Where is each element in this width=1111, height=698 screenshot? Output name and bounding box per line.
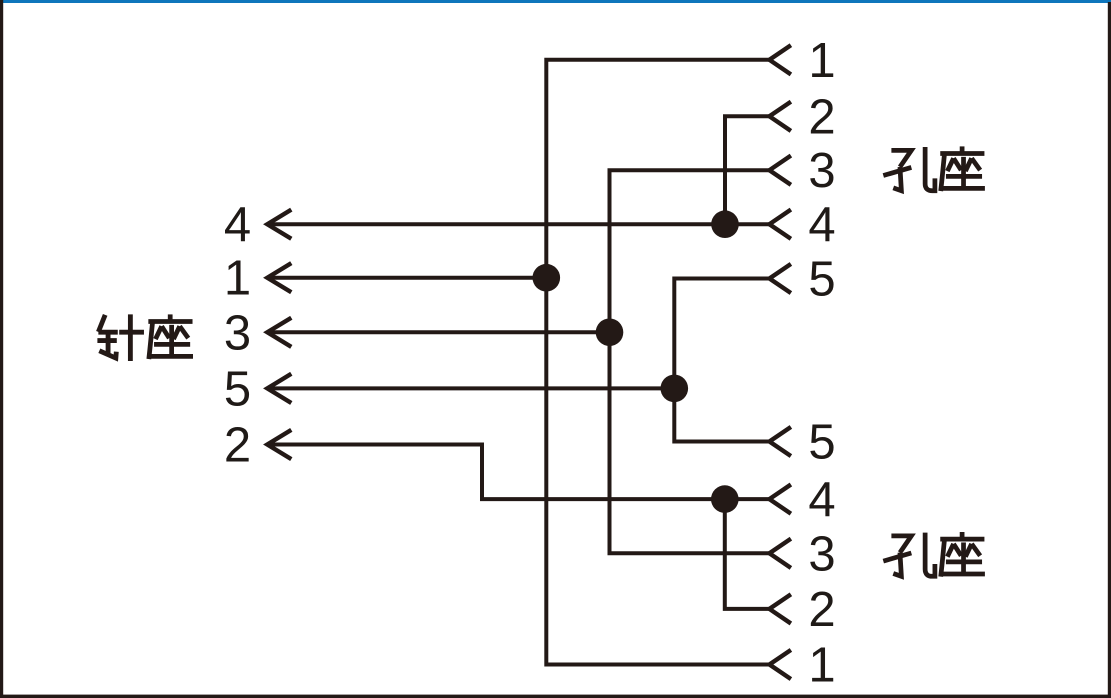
arrow: 针座 pin1 <box>267 263 291 292</box>
座 char (left) <box>148 314 193 359</box>
wire: vertical bus net5 (top pin5 to bottom pin5) <box>674 279 769 442</box>
wire: 针座 pin3 to junction on vertical bus <box>267 330 609 334</box>
svg-text:4: 4 <box>224 198 251 252</box>
arrow: 孔座(top) pin1 <box>769 45 791 74</box>
arrow: 针座 pin3 <box>267 318 291 347</box>
arrow: 孔座(bottom) pin5 <box>769 427 791 456</box>
arrow: 针座 pin5 <box>267 374 291 403</box>
arrow: 孔座(top) pin3 <box>769 156 791 185</box>
svg-text:2: 2 <box>808 583 835 637</box>
arrow: 针座 pin2 <box>267 430 291 459</box>
arrow: 针座 pin4 <box>267 210 291 239</box>
针 char <box>97 314 144 361</box>
wire: vertical link top pin2 to top pin4 junction <box>725 116 769 224</box>
arrow: 孔座(top) pin2 <box>769 102 791 131</box>
孔 char top <box>883 147 935 191</box>
svg-text:5: 5 <box>808 416 835 470</box>
junction: bottom pin4 / pin2 tap <box>711 485 739 513</box>
svg-text:1: 1 <box>808 639 835 693</box>
svg-text:2: 2 <box>224 419 251 473</box>
座 char top-right <box>940 146 985 191</box>
arrow: 孔座(bottom) pin2 <box>769 594 791 623</box>
svg-text:1: 1 <box>808 34 835 88</box>
arrow: 孔座(bottom) pin3 <box>769 539 791 568</box>
arrow: 孔座(top) pin4 <box>769 210 791 239</box>
junction: top pin4 / pin2 tap <box>711 210 739 238</box>
svg-text:1: 1 <box>224 252 251 306</box>
svg-text:3: 3 <box>224 306 251 360</box>
wire: vertical bus net3 (top pin3 to bottom pin3) <box>610 170 770 553</box>
svg-text:3: 3 <box>808 527 835 581</box>
svg-text:2: 2 <box>808 90 835 144</box>
svg-text:4: 4 <box>808 198 835 252</box>
wire: vertical bus net1 (top pin1 to bottom pin1) <box>546 60 769 665</box>
wire: net 4 — 针座 pin4 to 孔座(top) pin4 <box>267 222 769 226</box>
arrow: 孔座(bottom) pin4 <box>769 485 791 514</box>
svg-text:5: 5 <box>808 253 835 307</box>
label: 针座 (pin socket), drawn as vector strokes <box>97 314 193 361</box>
svg-text:4: 4 <box>808 473 835 527</box>
junction: net3 at 针座 pin3 wire <box>596 319 624 347</box>
wire: 针座 pin1 to junction on vertical bus <box>267 276 546 280</box>
label: 孔座 (socket, top), drawn as vector strokes <box>883 146 985 191</box>
孔 char bottom <box>883 533 935 577</box>
wire: 针座 pin5 to junction on vertical bus <box>267 386 674 390</box>
junction: net5 at 针座 pin5 wire <box>661 375 689 403</box>
wire: 针座 pin2 to 孔座(bottom) pin4 (with two bends) <box>267 445 769 500</box>
label: 孔座 (socket, bottom), drawn as vector strokes <box>883 532 985 577</box>
svg-text:3: 3 <box>808 144 835 198</box>
svg-text:5: 5 <box>224 362 251 416</box>
arrow: 孔座(bottom) pin1 <box>769 650 791 679</box>
wire: vertical link bottom pin4 junction to bottom pin2 <box>725 499 770 609</box>
座 char bottom-right <box>940 532 985 577</box>
junction: net1 at 针座 pin1 wire <box>533 264 561 292</box>
arrow: 孔座(top) pin5 <box>769 264 791 293</box>
